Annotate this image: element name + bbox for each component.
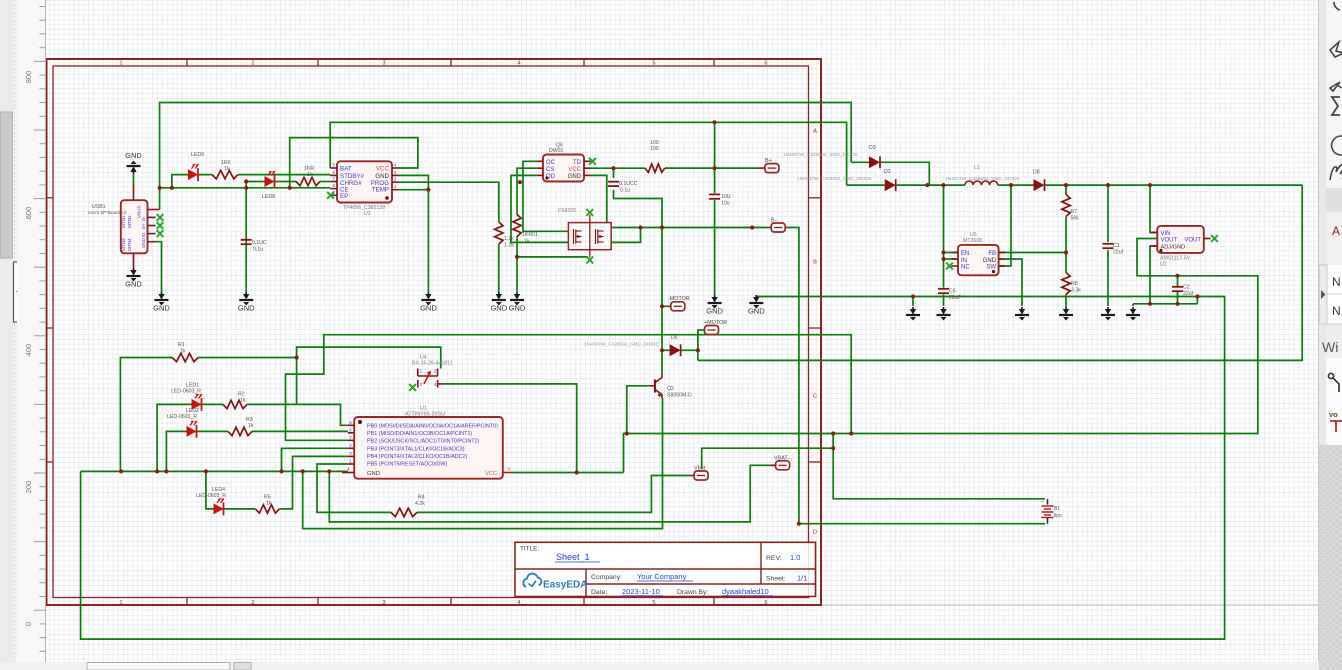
- capacitor 0.1UC: [241, 239, 252, 241]
- svg-text:STDBY#: STDBY#: [340, 173, 365, 180]
- svg-text:Sheet_1: Sheet_1: [556, 552, 590, 562]
- svg-text:22uf: 22uf: [1113, 250, 1124, 256]
- resistor R7: [1062, 195, 1070, 217]
- svg-text:100: 100: [650, 146, 659, 152]
- bottom scrollbar: [0, 662, 1342, 670]
- svg-text:B1: B1: [1054, 506, 1060, 512]
- wire: 1KR01 to FS8205: [517, 256, 588, 258]
- wire: U2 ADJ/GND: [1150, 246, 1157, 304]
- svg-text:1k: 1k: [307, 172, 313, 178]
- LED9: [188, 169, 198, 180]
- svg-text:1N4007W_C328592_SMD_DIODE: 1N4007W_C328592_SMD_DIODE: [945, 176, 1020, 182]
- wire: U2 VOUT to 5V rail: [624, 239, 1258, 473]
- svg-text:MTN2: MTN2: [127, 215, 132, 228]
- wire: DW01 VCC / 0.1UCC: [591, 167, 645, 169]
- svg-text:TD: TD: [573, 160, 582, 166]
- svg-text:EP: EP: [340, 193, 348, 200]
- wire: D3 branch: [851, 161, 869, 163]
- svg-text:3.3k: 3.3k: [1071, 288, 1081, 294]
- svg-text:VCC: VCC: [568, 167, 581, 173]
- diode D2: [885, 179, 896, 191]
- svg-text:OC: OC: [546, 160, 556, 166]
- ground below USB: [133, 268, 135, 275]
- svg-text:D3: D3: [869, 145, 876, 151]
- svg-text:3: 3: [382, 61, 385, 67]
- svg-text:TITLE:: TITLE:: [520, 546, 539, 553]
- wire: DW01 OD to FS8205: [511, 175, 568, 242]
- ground LED9 branch: [161, 292, 163, 299]
- resistor 1KR01: [513, 215, 521, 237]
- svg-text:VIN: VIN: [1161, 231, 1171, 237]
- svg-text:GND: GND: [568, 174, 582, 180]
- svg-text:Vbat: Vbat: [694, 466, 706, 472]
- capacitor C2: [1172, 286, 1183, 288]
- wire: GND rail bottom-left: [81, 470, 348, 472]
- svg-text:L1: L1: [974, 165, 980, 171]
- svg-text:U3: U3: [364, 211, 371, 217]
- vertical ruler: [17, 0, 46, 662]
- svg-text:GND: GND: [367, 471, 380, 477]
- svg-text:VBUS: VBUS: [137, 205, 142, 218]
- resistor 1KR: [296, 177, 320, 185]
- wire: U3 GND/TEMP to ground: [399, 175, 429, 292]
- svg-text:D+: D+: [141, 223, 146, 229]
- wire: DW01 GND down: [591, 175, 607, 222]
- svg-text:1.2k: 1.2k: [504, 236, 514, 242]
- svg-text:D: D: [813, 530, 817, 536]
- wire: U1 VCC rail: [512, 472, 624, 474]
- resistor R3: [228, 427, 252, 435]
- left panel scrollbar: [0, 0, 13, 662]
- svg-text:8: 8: [508, 467, 511, 472]
- wire: battery- bottom: [799, 523, 1045, 525]
- svg-text:1: 1: [119, 61, 122, 67]
- wire: LED8/CHRG line: [246, 181, 296, 183]
- +MOTOR plug: [705, 326, 719, 335]
- svg-text:Date:: Date:: [591, 589, 607, 596]
- svg-text:C5: C5: [949, 289, 956, 295]
- wire: VBAT- to GND: [329, 465, 775, 522]
- svg-text:Company:: Company:: [591, 574, 622, 581]
- svg-text:EasyEDA: EasyEDA: [543, 580, 587, 591]
- wire: LED4/R5 to PB4: [206, 471, 256, 509]
- svg-text:1k: 1k: [224, 166, 230, 172]
- svg-text:lipo: lipo: [1054, 513, 1062, 519]
- svg-text:4: 4: [347, 467, 350, 472]
- wire: U4 pin4 to VCC: [444, 384, 577, 473]
- wire: 10U cap branch / B+ vertical: [714, 122, 716, 193]
- resistor 1KK: [212, 170, 238, 178]
- wire: BAT rail (battery+): [330, 122, 846, 185]
- svg-text:LED8: LED8: [262, 194, 275, 200]
- svg-text:4: 4: [434, 382, 437, 387]
- ground return left: [755, 295, 757, 302]
- svg-text:B-: B-: [771, 218, 777, 224]
- svg-text:S8050M-D: S8050M-D: [667, 393, 692, 399]
- transistor Q2: [654, 380, 656, 393]
- B+ plug: [759, 167, 765, 169]
- svg-text:400: 400: [24, 344, 33, 357]
- ground 0.1UC: [245, 292, 247, 299]
- svg-text:PB4 (PCINT4/XTAL2/CLKO/OC1B/AD: PB4 (PCINT4/XTAL2/CLKO/OC1B/ADC2): [367, 454, 467, 460]
- svg-text:6: 6: [764, 600, 767, 606]
- svg-text:FB: FB: [988, 251, 996, 257]
- wire: R1 to LED4 link vertical: [296, 358, 298, 405]
- resistor R4: [391, 508, 417, 516]
- svg-text:VOUT: VOUT: [1184, 238, 1201, 244]
- diode D3: [869, 156, 880, 168]
- svg-text:GND: GND: [983, 258, 997, 264]
- svg-text:N: N: [1332, 304, 1341, 318]
- svg-text:800: 800: [24, 71, 33, 84]
- wire: motor+ line to boost rail: [698, 185, 1302, 360]
- LED8: [265, 176, 275, 187]
- ground 1KR01: [516, 292, 518, 299]
- svg-text:22uF: 22uF: [949, 295, 961, 301]
- wire: B- to battery minus: [785, 228, 799, 524]
- svg-text:GND: GND: [706, 307, 723, 316]
- svg-text:GND: GND: [375, 173, 389, 180]
- svg-text:Sheet:: Sheet:: [766, 576, 786, 583]
- wire: R1 / U4 pin2 net: [120, 358, 172, 472]
- svg-text:GND: GND: [125, 280, 142, 289]
- wire: C1 branch: [1107, 185, 1109, 242]
- svg-text:1KR01: 1KR01: [522, 232, 538, 238]
- wire: USB GND to ground: [156, 242, 162, 292]
- svg-text:PB1 (MISO/DO/AIN1/OC0B/OC1A/PC: PB1 (MISO/DO/AIN1/OC0B/OC1A/PCINT1): [367, 431, 472, 437]
- svg-text:R4: R4: [418, 495, 425, 501]
- wire: PB2 long net: [286, 335, 852, 441]
- svg-text:PB5 (PCINT5/RESET/ADC0/DW): PB5 (PCINT5/RESET/ADC0/DW): [367, 462, 447, 468]
- svg-text:GND: GND: [490, 304, 507, 313]
- svg-text:1k: 1k: [524, 239, 530, 245]
- svg-text:TEMP: TEMP: [372, 187, 389, 194]
- junction dots: [158, 186, 162, 190]
- LED2: [187, 426, 197, 437]
- ground row right side: [912, 307, 914, 314]
- svg-text:5: 5: [652, 61, 655, 67]
- svg-text:D6: D6: [671, 335, 678, 341]
- svg-text:C1: C1: [1113, 243, 1120, 249]
- svg-text:0: 0: [24, 622, 33, 626]
- resistor 1.2k: [495, 222, 503, 244]
- svg-text:0.1UCC: 0.1UCC: [619, 181, 638, 187]
- wire: FB node: [999, 252, 1066, 254]
- resistor R1: [172, 353, 198, 361]
- battery B1: [1047, 499, 1049, 505]
- capacitor 10U: [709, 193, 720, 195]
- resistor 100: [645, 164, 665, 172]
- capacitor 0.1UCC: [608, 181, 619, 183]
- svg-text:dyaakhaled10: dyaakhaled10: [722, 587, 769, 596]
- svg-text:R8: R8: [1071, 281, 1078, 287]
- wire: LED9/STDBY line: [172, 175, 212, 188]
- svg-text:MTN3: MTN3: [121, 238, 126, 251]
- svg-text:ADJ/GND: ADJ/GND: [1161, 245, 1186, 251]
- inductor L1: [965, 181, 998, 185]
- svg-text:A: A: [1332, 224, 1340, 238]
- diode D6: [670, 344, 681, 356]
- svg-text:1k: 1k: [180, 348, 186, 354]
- diode D8: [1034, 179, 1045, 191]
- svg-text:1k: 1k: [248, 423, 254, 429]
- svg-text:C: C: [813, 394, 817, 400]
- svg-text:0.1UC: 0.1UC: [252, 240, 267, 246]
- svg-text:R1: R1: [178, 342, 185, 348]
- svg-text:GND: GND: [141, 238, 146, 248]
- svg-text:2: 2: [251, 61, 254, 67]
- svg-text:Your Company: Your Company: [637, 572, 687, 581]
- title block: [515, 542, 816, 596]
- svg-text:22uf: 22uf: [1183, 291, 1194, 297]
- svg-text:D8: D8: [1033, 170, 1040, 176]
- svg-text:10U: 10U: [721, 194, 731, 200]
- wire: LED1/R2 to PB0: [157, 404, 223, 471]
- svg-text:0.1u: 0.1u: [253, 247, 263, 253]
- svg-text:LED9: LED9: [191, 152, 204, 158]
- schematic sheet frame: [47, 59, 822, 605]
- svg-text:PB0 (MOSI/DI/SDA/AIN0/OC0A/OC1: PB0 (MOSI/DI/SDA/AIN0/OC0A/OC1A/AREF/PCI…: [367, 424, 498, 430]
- svg-text:VOUT: VOUT: [1161, 238, 1178, 244]
- U3 TP4056 charger: [337, 161, 392, 202]
- svg-text:+MOTOR: +MOTOR: [704, 320, 727, 326]
- svg-text:C2: C2: [1183, 285, 1190, 291]
- svg-text:LED-0603_R: LED-0603_R: [196, 493, 226, 499]
- -MOTOR plug: [671, 302, 685, 311]
- svg-text:VCC: VCC: [376, 166, 390, 173]
- svg-text:GND: GND: [153, 304, 170, 313]
- svg-text:N: N: [1332, 275, 1341, 289]
- svg-text:LED-0603_R: LED-0603_R: [167, 414, 197, 420]
- wire: boost input rail: [847, 184, 885, 186]
- svg-text:micro 5P*Board5.5: micro 5P*Board5.5: [88, 210, 127, 215]
- svg-text:56k: 56k: [1071, 216, 1080, 222]
- wire: DW01 OC to FS8205: [523, 161, 568, 231]
- wire: -MOTOR plug stub: [662, 305, 671, 307]
- wire: VBUS top long line: [160, 103, 852, 210]
- svg-text:REV:: REV:: [766, 555, 782, 562]
- svg-text:MTN1: MTN1: [121, 215, 126, 228]
- svg-text:D-: D-: [141, 216, 146, 221]
- svg-text:+: +: [1041, 499, 1044, 504]
- USB1 connector: [121, 200, 148, 253]
- svg-text:BX-15-26-441811: BX-15-26-441811: [412, 361, 453, 367]
- svg-text:1: 1: [420, 369, 423, 374]
- svg-text:BAT: BAT: [340, 166, 352, 173]
- ground above USB: [133, 173, 135, 185]
- svg-text:VBAT-: VBAT-: [774, 456, 789, 462]
- svg-text:GND: GND: [509, 304, 526, 313]
- capacitor C1: [1103, 243, 1114, 245]
- wire: U3 VCC loop: [290, 138, 418, 188]
- wire: FS8205 right to B-: [611, 227, 771, 229]
- svg-text:SW: SW: [986, 265, 996, 271]
- svg-text:2023-11-10: 2023-11-10: [622, 587, 660, 596]
- svg-text:5: 5: [652, 600, 655, 606]
- svg-text:MTN4: MTN4: [127, 238, 132, 251]
- svg-text:VCC: VCC: [485, 471, 497, 477]
- resistor R5: [255, 505, 279, 513]
- ground U3: [427, 292, 429, 299]
- svg-text:GND: GND: [748, 307, 765, 316]
- svg-text:1: 1: [119, 600, 122, 606]
- svg-text:PB2 (SCK/USCK/SCL/ADC1/T0/INT0: PB2 (SCK/USCK/SCL/ADC1/T0/INT0/PCINT2): [367, 439, 480, 445]
- wire: U2 VIN: [1150, 185, 1157, 232]
- svg-text:ID: ID: [141, 233, 146, 237]
- wire: Q2 base: [627, 386, 650, 434]
- U2 AMS1117-5V regulator: [1157, 226, 1204, 253]
- svg-text:-MOTOR: -MOTOR: [668, 296, 690, 302]
- wire: PB3 stub: [282, 448, 348, 471]
- wire: U5 GND to ground: [999, 259, 1022, 306]
- svg-text:CS: CS: [546, 167, 554, 173]
- wire: U3 PROG to 1.2k: [399, 182, 499, 222]
- svg-text:1k: 1k: [240, 398, 246, 404]
- wire: 0.1UC cap branch: [245, 182, 247, 293]
- B- plug: [771, 223, 785, 232]
- svg-text:1N4007W_C328592_SMD_DIODE: 1N4007W_C328592_SMD_DIODE: [783, 152, 858, 158]
- svg-text:R7: R7: [1071, 209, 1078, 215]
- svg-text:B: B: [813, 260, 817, 266]
- svg-text:3: 3: [420, 382, 423, 387]
- LED4: [214, 503, 224, 514]
- U1 ATTINY85: [354, 417, 503, 479]
- wire: long ground return: [755, 295, 757, 297]
- svg-text:U2: U2: [1160, 262, 1167, 268]
- svg-text:1.0: 1.0: [790, 553, 800, 562]
- wire: Q2 emitter to GND: [303, 398, 663, 529]
- svg-text:EN: EN: [961, 251, 969, 257]
- VBAT- plug: [771, 464, 776, 466]
- EasyEDA logo: [523, 574, 541, 587]
- svg-text:1k: 1k: [266, 501, 272, 507]
- collapse handle: [14, 262, 24, 322]
- svg-text:10u: 10u: [721, 201, 730, 207]
- svg-text:IN: IN: [961, 258, 967, 264]
- right side panels: [1318, 0, 1342, 188]
- svg-text:2: 2: [434, 369, 437, 374]
- svg-text:200: 200: [24, 481, 33, 494]
- svg-text:B+: B+: [765, 158, 772, 164]
- capacitor C5: [938, 288, 949, 290]
- svg-text:Drawn By:: Drawn By:: [677, 589, 708, 596]
- svg-text:2: 2: [251, 600, 254, 606]
- svg-text:600: 600: [24, 207, 33, 220]
- wire: DW01 CS / 1KR01: [517, 168, 537, 214]
- wire: C5/EN/IN vertical: [943, 185, 945, 287]
- svg-text:1.2k: 1.2k: [504, 243, 514, 249]
- svg-text:NC: NC: [961, 265, 970, 271]
- FS8205 dual mosfet: [568, 223, 611, 250]
- svg-text:LED-0603_R: LED-0603_R: [171, 389, 201, 395]
- svg-text:A: A: [813, 129, 817, 135]
- Vbat plug: [690, 475, 695, 477]
- svg-text:1N4007W_C328592_SMD_DIODE: 1N4007W_C328592_SMD_DIODE: [584, 342, 659, 348]
- svg-text:0.1u: 0.1u: [620, 188, 630, 194]
- svg-text:3: 3: [382, 600, 385, 606]
- svg-text:MT3608: MT3608: [963, 238, 982, 244]
- svg-text:Wi: Wi: [1322, 339, 1338, 355]
- wire: R4 / PB5: [317, 464, 391, 512]
- Q6 DW01 protection IC: [543, 155, 584, 182]
- resistor R2: [223, 400, 247, 408]
- wire: SW node: [999, 185, 1011, 266]
- svg-text:Q2: Q2: [667, 386, 674, 392]
- resistor R8: [1062, 273, 1070, 295]
- svg-text:GND: GND: [125, 151, 142, 160]
- wire: D6 cathode / +MOTOR: [681, 349, 698, 351]
- wire: 100R to B+ node: [665, 167, 759, 169]
- wire: main left rail (VBUS): [160, 187, 331, 189]
- wire: C2 branch: [1177, 276, 1179, 287]
- svg-text:1N4007W_C328592_SMD_DIODE: 1N4007W_C328592_SMD_DIODE: [797, 176, 872, 182]
- U5 MT3608 boost: [958, 245, 999, 275]
- svg-text:vo: vo: [1329, 410, 1338, 419]
- svg-text:D2: D2: [884, 169, 891, 175]
- wire: GND segment under U2: [1133, 303, 1197, 305]
- svg-text:1/1: 1/1: [797, 574, 807, 583]
- svg-text:GND: GND: [238, 304, 255, 313]
- svg-text:DW01: DW01: [549, 148, 564, 154]
- ground 10U: [714, 295, 716, 302]
- svg-text:ATTINY85-20SU: ATTINY85-20SU: [405, 412, 445, 418]
- wire: R7/R8 divider: [1065, 185, 1067, 194]
- svg-text:FS8205: FS8205: [558, 208, 576, 214]
- wire: LED2/R3 to PB1: [166, 431, 228, 471]
- wire: Vbat to battery+: [702, 448, 834, 468]
- svg-text:4.2k: 4.2k: [415, 501, 425, 507]
- svg-text:GND: GND: [420, 304, 437, 313]
- LED1: [192, 399, 202, 410]
- svg-text:PB3 (PCINT3/XTAL1/CLKI/OC1B/AD: PB3 (PCINT3/XTAL1/CLKI/OC1B/ADC3): [367, 446, 465, 452]
- svg-text:6: 6: [764, 61, 767, 67]
